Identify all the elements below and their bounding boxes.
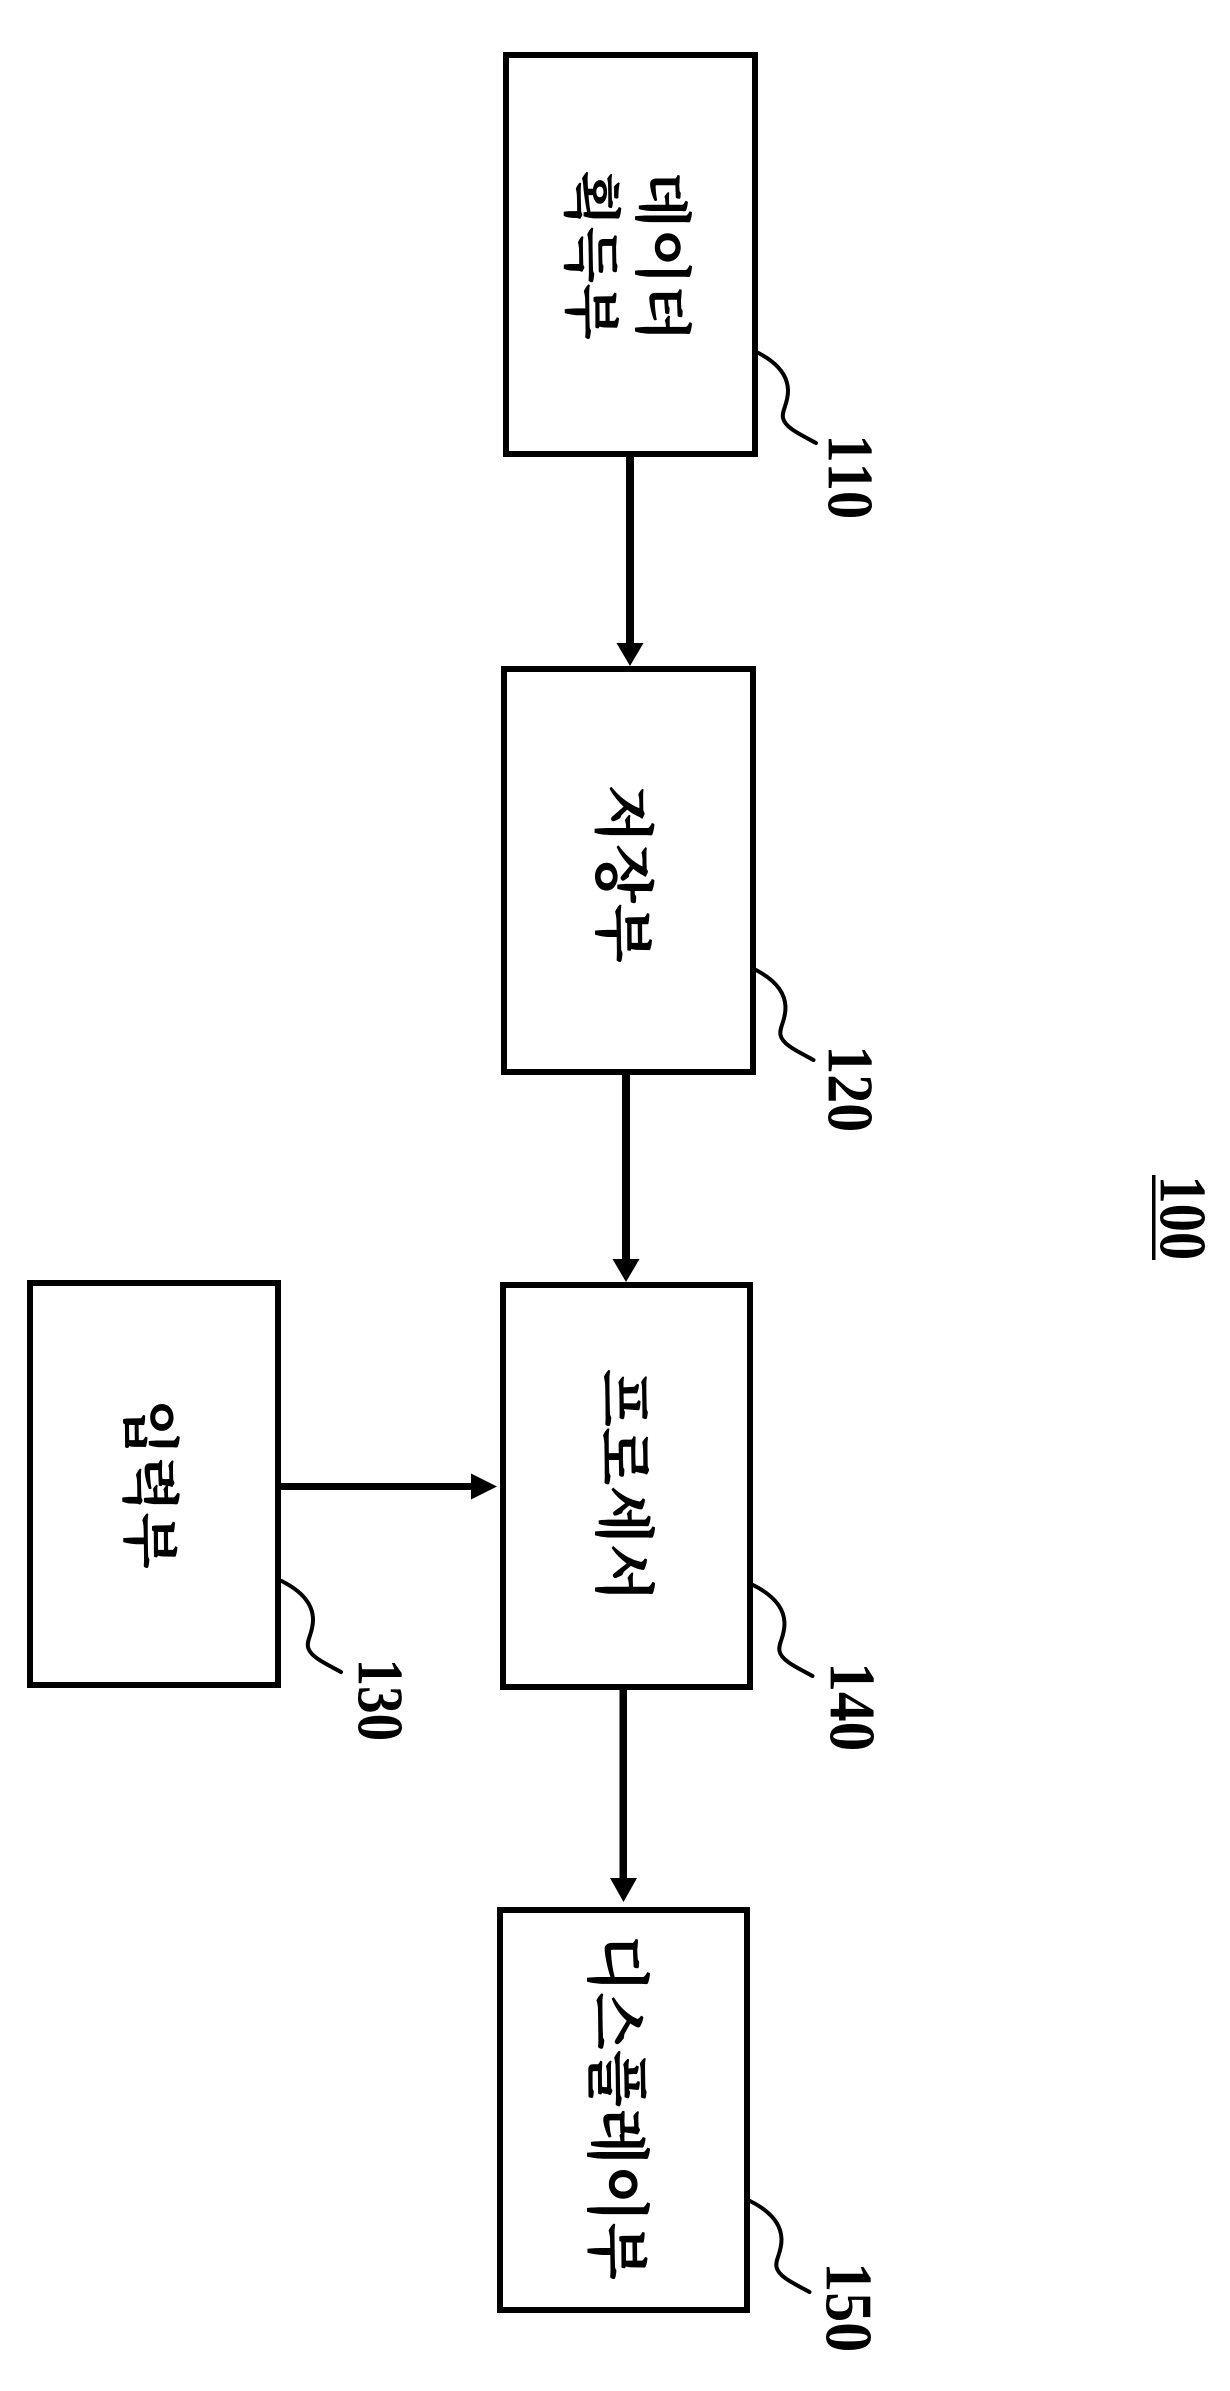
text line2 획득부 in box 110	[564, 172, 622, 339]
box 120 (storage unit 저장부)	[504, 669, 753, 1072]
text 디스플레이부 in box 150	[587, 1939, 650, 2279]
arrowhead into box 120	[617, 643, 644, 666]
wire from box 120 to arrow of box 140	[622, 1075, 630, 1260]
box 130 (input unit 입력부)	[30, 1283, 278, 1685]
label 150	[826, 2267, 871, 2350]
text line1 데이터 in box 110	[635, 175, 692, 334]
leader squiggle to label 140	[753, 1585, 813, 1676]
label 120	[828, 1050, 872, 1130]
label 110	[828, 439, 872, 517]
text 저장부 in box 120	[595, 787, 655, 962]
wire from box 130 up to arrow of box 140	[281, 1483, 472, 1490]
wire from box 140 to arrow of box 150	[620, 1690, 628, 1879]
arrowhead from box 130 into box 140	[471, 1474, 497, 1500]
leader squiggle to label 110	[757, 352, 817, 443]
label 130	[358, 1663, 402, 1739]
wire from box 110 to arrow of box 120	[626, 457, 634, 644]
label 100 (figure reference)	[1160, 1180, 1205, 1258]
text 프로세서 in box 140	[595, 1370, 655, 1594]
arrowhead into box 140	[613, 1259, 640, 1282]
leader squiggle to label 130	[282, 1581, 342, 1672]
arrowhead into box 150	[610, 1878, 637, 1902]
box 140 (processor 프로세서)	[503, 1285, 750, 1687]
text 입력부 in box 130	[122, 1404, 179, 1568]
box 150 (display unit 디스플레이부)	[500, 1910, 747, 2310]
leader squiggle to label 150	[750, 2201, 810, 2292]
box 110 (data acquisition unit 데이터 획득부)	[506, 55, 755, 454]
label 140	[830, 1667, 874, 1749]
leader squiggle to label 120	[754, 969, 814, 1060]
underline of label 100	[1152, 1175, 1156, 1260]
